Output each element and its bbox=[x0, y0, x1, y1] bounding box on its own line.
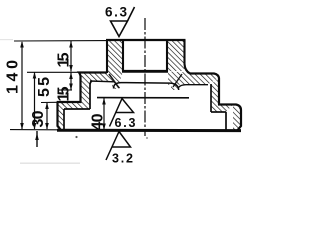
rim outer left bbox=[58, 102, 61, 130]
hub left wall bbox=[106, 40, 108, 73]
hatch wall right bbox=[211, 78, 219, 112]
svg-text:3.2: 3.2 bbox=[112, 152, 133, 166]
dim 15 lower line bbox=[70, 73, 72, 91]
roughness 6.3 mid symbol bbox=[110, 99, 134, 127]
web top right bbox=[190, 74, 219, 105]
web bottom left bbox=[90, 80, 114, 83]
svg-text:6.3: 6.3 bbox=[105, 5, 127, 20]
hatch rim left bbox=[58, 102, 65, 129]
dim 30 extension bbox=[41, 101, 57, 103]
junction shadow right bbox=[173, 74, 182, 87]
hub top bbox=[106, 39, 186, 41]
hatch wall left bbox=[81, 75, 91, 109]
dim 15 lower extension bbox=[58, 89, 72, 91]
ledge top right bbox=[218, 105, 241, 131]
ledge underside left bbox=[64, 108, 90, 110]
svg-text:140: 140 bbox=[5, 60, 22, 94]
svg-text:15: 15 bbox=[56, 86, 73, 101]
ledge underside right bbox=[211, 111, 226, 113]
dim 30 line bbox=[46, 103, 48, 129]
tick below bottom bbox=[36, 131, 38, 147]
dim 140 line bbox=[21, 42, 23, 129]
svg-text:30: 30 bbox=[30, 110, 47, 127]
hub right wall bbox=[185, 40, 191, 74]
bottom face bbox=[57, 129, 241, 132]
centerline bbox=[144, 18, 146, 136]
inner wall right bbox=[210, 84, 212, 112]
roughness 3.2 bottom symbol bbox=[106, 132, 131, 161]
bore bottom line bbox=[122, 70, 168, 73]
dim 55 line bbox=[34, 73, 36, 130]
junction shadow left bbox=[109, 74, 119, 88]
recess pill line bbox=[114, 83, 179, 90]
cavity line y97 bbox=[97, 97, 189, 99]
hatch ledge right bbox=[211, 105, 233, 113]
top extension line bbox=[14, 40, 106, 42]
dim 55 extension bbox=[27, 71, 79, 73]
svg-text:6.3: 6.3 bbox=[115, 116, 136, 130]
ledge top left bbox=[57, 101, 82, 103]
web bottom right bbox=[179, 85, 209, 88]
inner wall left bbox=[90, 81, 92, 109]
hatch rim right bbox=[233, 105, 241, 131]
hatch hub left wall bbox=[107, 40, 123, 72]
hatch web right bbox=[168, 72, 219, 85]
roughness 6.3 top symbol bbox=[111, 7, 135, 37]
hatch web step left bbox=[112, 81, 120, 89]
svg-text:15: 15 bbox=[56, 52, 73, 67]
svg-text:40: 40 bbox=[90, 113, 107, 130]
bottom extension line bbox=[10, 129, 57, 131]
bore left wall bbox=[122, 40, 124, 72]
hatch web step right bbox=[171, 83, 178, 90]
rim inner right bbox=[225, 112, 227, 130]
bore right wall bbox=[166, 40, 168, 72]
hatch web left bbox=[79, 72, 123, 82]
dim 15 upper line bbox=[70, 41, 72, 72]
dim 40 line bbox=[103, 98, 105, 130]
rim inner left bbox=[63, 109, 65, 129]
hatch hub right wall bbox=[167, 40, 185, 71]
scan specks bbox=[75, 136, 77, 138]
hatch ledge left bbox=[58, 102, 91, 109]
web top left bbox=[79, 73, 107, 103]
